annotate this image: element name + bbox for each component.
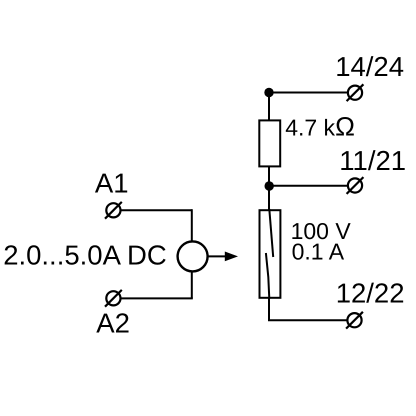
wire resistor bottom to reed box	[268, 166, 270, 210]
terminal 11/21	[347, 177, 364, 194]
arrow head	[225, 252, 238, 262]
wire from node top to terminal 14/24	[269, 92, 348, 94]
svg-text:14/24: 14/24	[335, 51, 404, 82]
terminal A2	[105, 290, 122, 307]
wire reed box bottom to corner	[268, 298, 270, 320]
svg-text:A1: A1	[95, 167, 129, 198]
node junction dot top	[264, 88, 273, 97]
reed switch box	[260, 210, 281, 298]
wire node to resistor top	[268, 93, 270, 121]
svg-text:A2: A2	[96, 307, 130, 338]
terminal 12/22	[346, 312, 363, 329]
svg-text:2.0...5.0A DC: 2.0...5.0A DC	[3, 239, 167, 270]
wire A1 to corner	[121, 209, 192, 211]
terminal A1	[105, 202, 122, 219]
svg-text:11/21: 11/21	[339, 145, 406, 176]
wire corner down to sensor	[191, 209, 193, 241]
wire corner to terminal 12/22	[268, 319, 348, 321]
terminal 14/24	[347, 84, 364, 101]
wire node to terminal 11/21	[269, 185, 348, 187]
svg-text:0.1 A: 0.1 A	[292, 239, 345, 265]
arrow line	[209, 255, 229, 257]
svg-text:12/22: 12/22	[336, 277, 405, 308]
reed contact bottom blade	[266, 253, 269, 299]
wire corner to A2	[121, 297, 193, 299]
svg-text:4.7 kΩ: 4.7 kΩ	[285, 112, 355, 142]
resistor R 4.7k	[259, 120, 280, 166]
reed contact top blade	[269, 209, 273, 257]
current sensor circle	[178, 241, 208, 271]
wire sensor bottom to corner	[191, 272, 193, 299]
node junction dot middle	[265, 181, 274, 190]
